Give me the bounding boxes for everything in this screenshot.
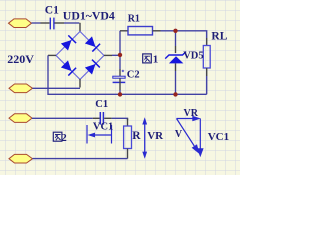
resistor R box bbox=[124, 126, 132, 149]
junction node C bbox=[173, 29, 177, 33]
svg-text:R1: R1 bbox=[128, 13, 140, 24]
svg-text:RL: RL bbox=[211, 30, 227, 42]
pin RL top bbox=[206, 38, 208, 46]
capacitor C1' plates bbox=[100, 112, 103, 125]
svg-text:2: 2 bbox=[61, 132, 67, 144]
port P3 (figure 2 top) bbox=[9, 114, 32, 123]
pin C1' left bbox=[93, 117, 100, 119]
wire RL to rail bbox=[206, 76, 208, 94]
junction node D bbox=[173, 92, 177, 96]
wire node to C2 bbox=[119, 55, 121, 69]
wire port P4 to R bbox=[33, 158, 128, 160]
VR double arrow bbox=[144, 121, 146, 156]
resistor R1 box bbox=[128, 27, 153, 35]
svg-text:C2: C2 bbox=[127, 70, 140, 81]
port P4 (figure 2 bottom) bbox=[9, 154, 33, 163]
pin C2 bottom bbox=[119, 78, 121, 90]
VC1 arrow bbox=[90, 134, 112, 136]
label fig2 bbox=[53, 132, 62, 141]
capacitor C2 plates bbox=[113, 76, 125, 78]
wire ground rail bbox=[48, 55, 207, 94]
capacitor C1 plates bbox=[50, 18, 54, 30]
pin R1 left bbox=[120, 30, 128, 32]
pin R bottom bbox=[127, 149, 129, 159]
pin bridge right bbox=[104, 54, 112, 56]
wire C1 to bridge top bbox=[64, 22, 79, 24]
svg-text:VR: VR bbox=[147, 130, 164, 142]
VC1 tick right bbox=[111, 125, 113, 144]
zener VD5 triangle bbox=[169, 56, 184, 63]
svg-text:1: 1 bbox=[153, 54, 159, 66]
pin bridge left bbox=[48, 54, 56, 56]
pin VD5 cathode bbox=[175, 46, 177, 53]
label fig1 bbox=[143, 54, 152, 63]
wire C1' to R bbox=[112, 118, 128, 120]
svg-text:VR: VR bbox=[184, 108, 199, 119]
pin C1 left bbox=[41, 22, 50, 24]
svg-text:C1: C1 bbox=[95, 99, 108, 110]
junction node A bbox=[118, 53, 122, 57]
diode bar VD3 bbox=[68, 68, 76, 76]
svg-text:R: R bbox=[132, 130, 141, 142]
diode VD2 (top-right edge) bbox=[85, 36, 96, 47]
diode VD1 (top-left edge) bbox=[61, 40, 72, 51]
svg-text:UD1~VD4: UD1~VD4 bbox=[63, 9, 115, 23]
svg-text:VC1: VC1 bbox=[208, 131, 229, 143]
pin bridge bottom bbox=[79, 79, 81, 88]
pin C1' right bbox=[104, 117, 111, 119]
port P2 (220V input bottom) bbox=[9, 84, 33, 93]
wire bridge right to node bbox=[112, 54, 120, 56]
wire port P3 to C1' bbox=[32, 117, 93, 119]
wire port P2 to bridge bottom bbox=[33, 87, 81, 89]
wire VD5 to rail bbox=[175, 71, 177, 94]
pin C2 top bbox=[119, 69, 121, 76]
plus mark C2 bbox=[122, 70, 124, 72]
svg-text:VD5: VD5 bbox=[183, 51, 203, 62]
phasor VR vector bbox=[177, 118, 197, 120]
pin C1 right bbox=[55, 22, 65, 24]
phasor VC1 vector bbox=[199, 119, 201, 150]
VC1 tick left bbox=[86, 125, 88, 144]
diode bar VD4 bbox=[92, 60, 100, 68]
diode bar VD2 bbox=[92, 44, 100, 52]
wire C2 to rail bbox=[119, 90, 121, 94]
pin R1 right bbox=[153, 30, 161, 32]
port P1 (220V input top) bbox=[9, 19, 32, 28]
junction node B bbox=[118, 92, 122, 96]
diode VD3 (bottom-left edge) bbox=[61, 60, 72, 71]
svg-text:220V: 220V bbox=[7, 52, 34, 66]
svg-text:V: V bbox=[175, 129, 183, 140]
diode VD4 (bottom-right edge) bbox=[85, 64, 96, 75]
svg-text:C1: C1 bbox=[45, 4, 59, 16]
pin bridge top bbox=[79, 23, 81, 32]
wire top rail R1 to RL bbox=[161, 31, 207, 38]
wire node up to R1 bbox=[119, 31, 121, 56]
zener VD5 bar bbox=[165, 52, 186, 59]
resistor RL box bbox=[203, 46, 210, 69]
pin RL bottom bbox=[206, 68, 208, 76]
bridge diamond bbox=[56, 31, 104, 79]
diode bar VD1 bbox=[68, 35, 76, 43]
phasor V vector bbox=[177, 119, 195, 147]
wire VD5 top bbox=[175, 31, 177, 46]
pin VD5 anode bbox=[175, 63, 177, 71]
pin R top bbox=[127, 118, 129, 126]
wire port P1 to C1 bbox=[32, 22, 41, 24]
svg-text:VC1: VC1 bbox=[93, 121, 113, 132]
